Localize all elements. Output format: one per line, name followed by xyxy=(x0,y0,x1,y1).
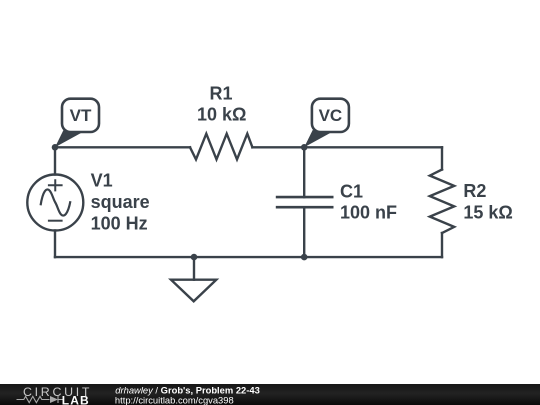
wire: R2 bottom to bottom rail xyxy=(441,233,443,257)
CircuitLab logo wordmark xyxy=(17,385,93,405)
label R2 value xyxy=(463,181,512,223)
svg-text:15 kΩ: 15 kΩ xyxy=(463,203,512,223)
wire: VT node down to V1 top xyxy=(54,147,56,174)
wire: C1 bottom plate to bottom rail xyxy=(303,207,305,257)
resistor R2 xyxy=(430,170,454,234)
voltage source V1 xyxy=(27,175,83,231)
wire top: VT node to R1 xyxy=(55,146,190,148)
flag VT xyxy=(55,99,99,148)
svg-text:R2: R2 xyxy=(463,181,486,201)
svg-text:VC: VC xyxy=(319,106,343,125)
capacitor C1 xyxy=(276,196,334,199)
label R1 value xyxy=(197,84,246,125)
svg-text:V1: V1 xyxy=(91,171,113,191)
label V1 value xyxy=(91,171,150,234)
flag VC xyxy=(304,99,349,148)
wire: V1 bottom to bottom rail xyxy=(54,231,56,258)
svg-text:square: square xyxy=(91,192,150,212)
wire: top-right corner down to R2 xyxy=(441,147,443,169)
wire top: R1 to right corner through VC node xyxy=(252,146,442,148)
svg-text:R1: R1 xyxy=(209,84,232,104)
wire bottom rail xyxy=(55,256,442,258)
svg-text:100 Hz: 100 Hz xyxy=(91,213,148,233)
svg-text:VT: VT xyxy=(70,106,92,125)
wire: VC node down to C1 top plate xyxy=(303,147,305,197)
node C1 bottom junction dot xyxy=(301,254,308,261)
node VC junction dot xyxy=(301,144,308,151)
resistor R1 xyxy=(190,134,252,160)
svg-text:LAB: LAB xyxy=(62,393,90,405)
node gnd junction dot xyxy=(191,254,198,261)
svg-text:C1: C1 xyxy=(340,181,363,201)
svg-text:100 nF: 100 nF xyxy=(340,202,397,222)
label C1 value xyxy=(340,181,397,222)
svg-text:http://circuitlab.com/cgva398: http://circuitlab.com/cgva398 xyxy=(115,394,234,405)
footer credit text xyxy=(115,385,260,405)
svg-text:10 kΩ: 10 kΩ xyxy=(197,104,246,124)
ground xyxy=(193,257,195,280)
node VT junction dot xyxy=(52,144,59,151)
